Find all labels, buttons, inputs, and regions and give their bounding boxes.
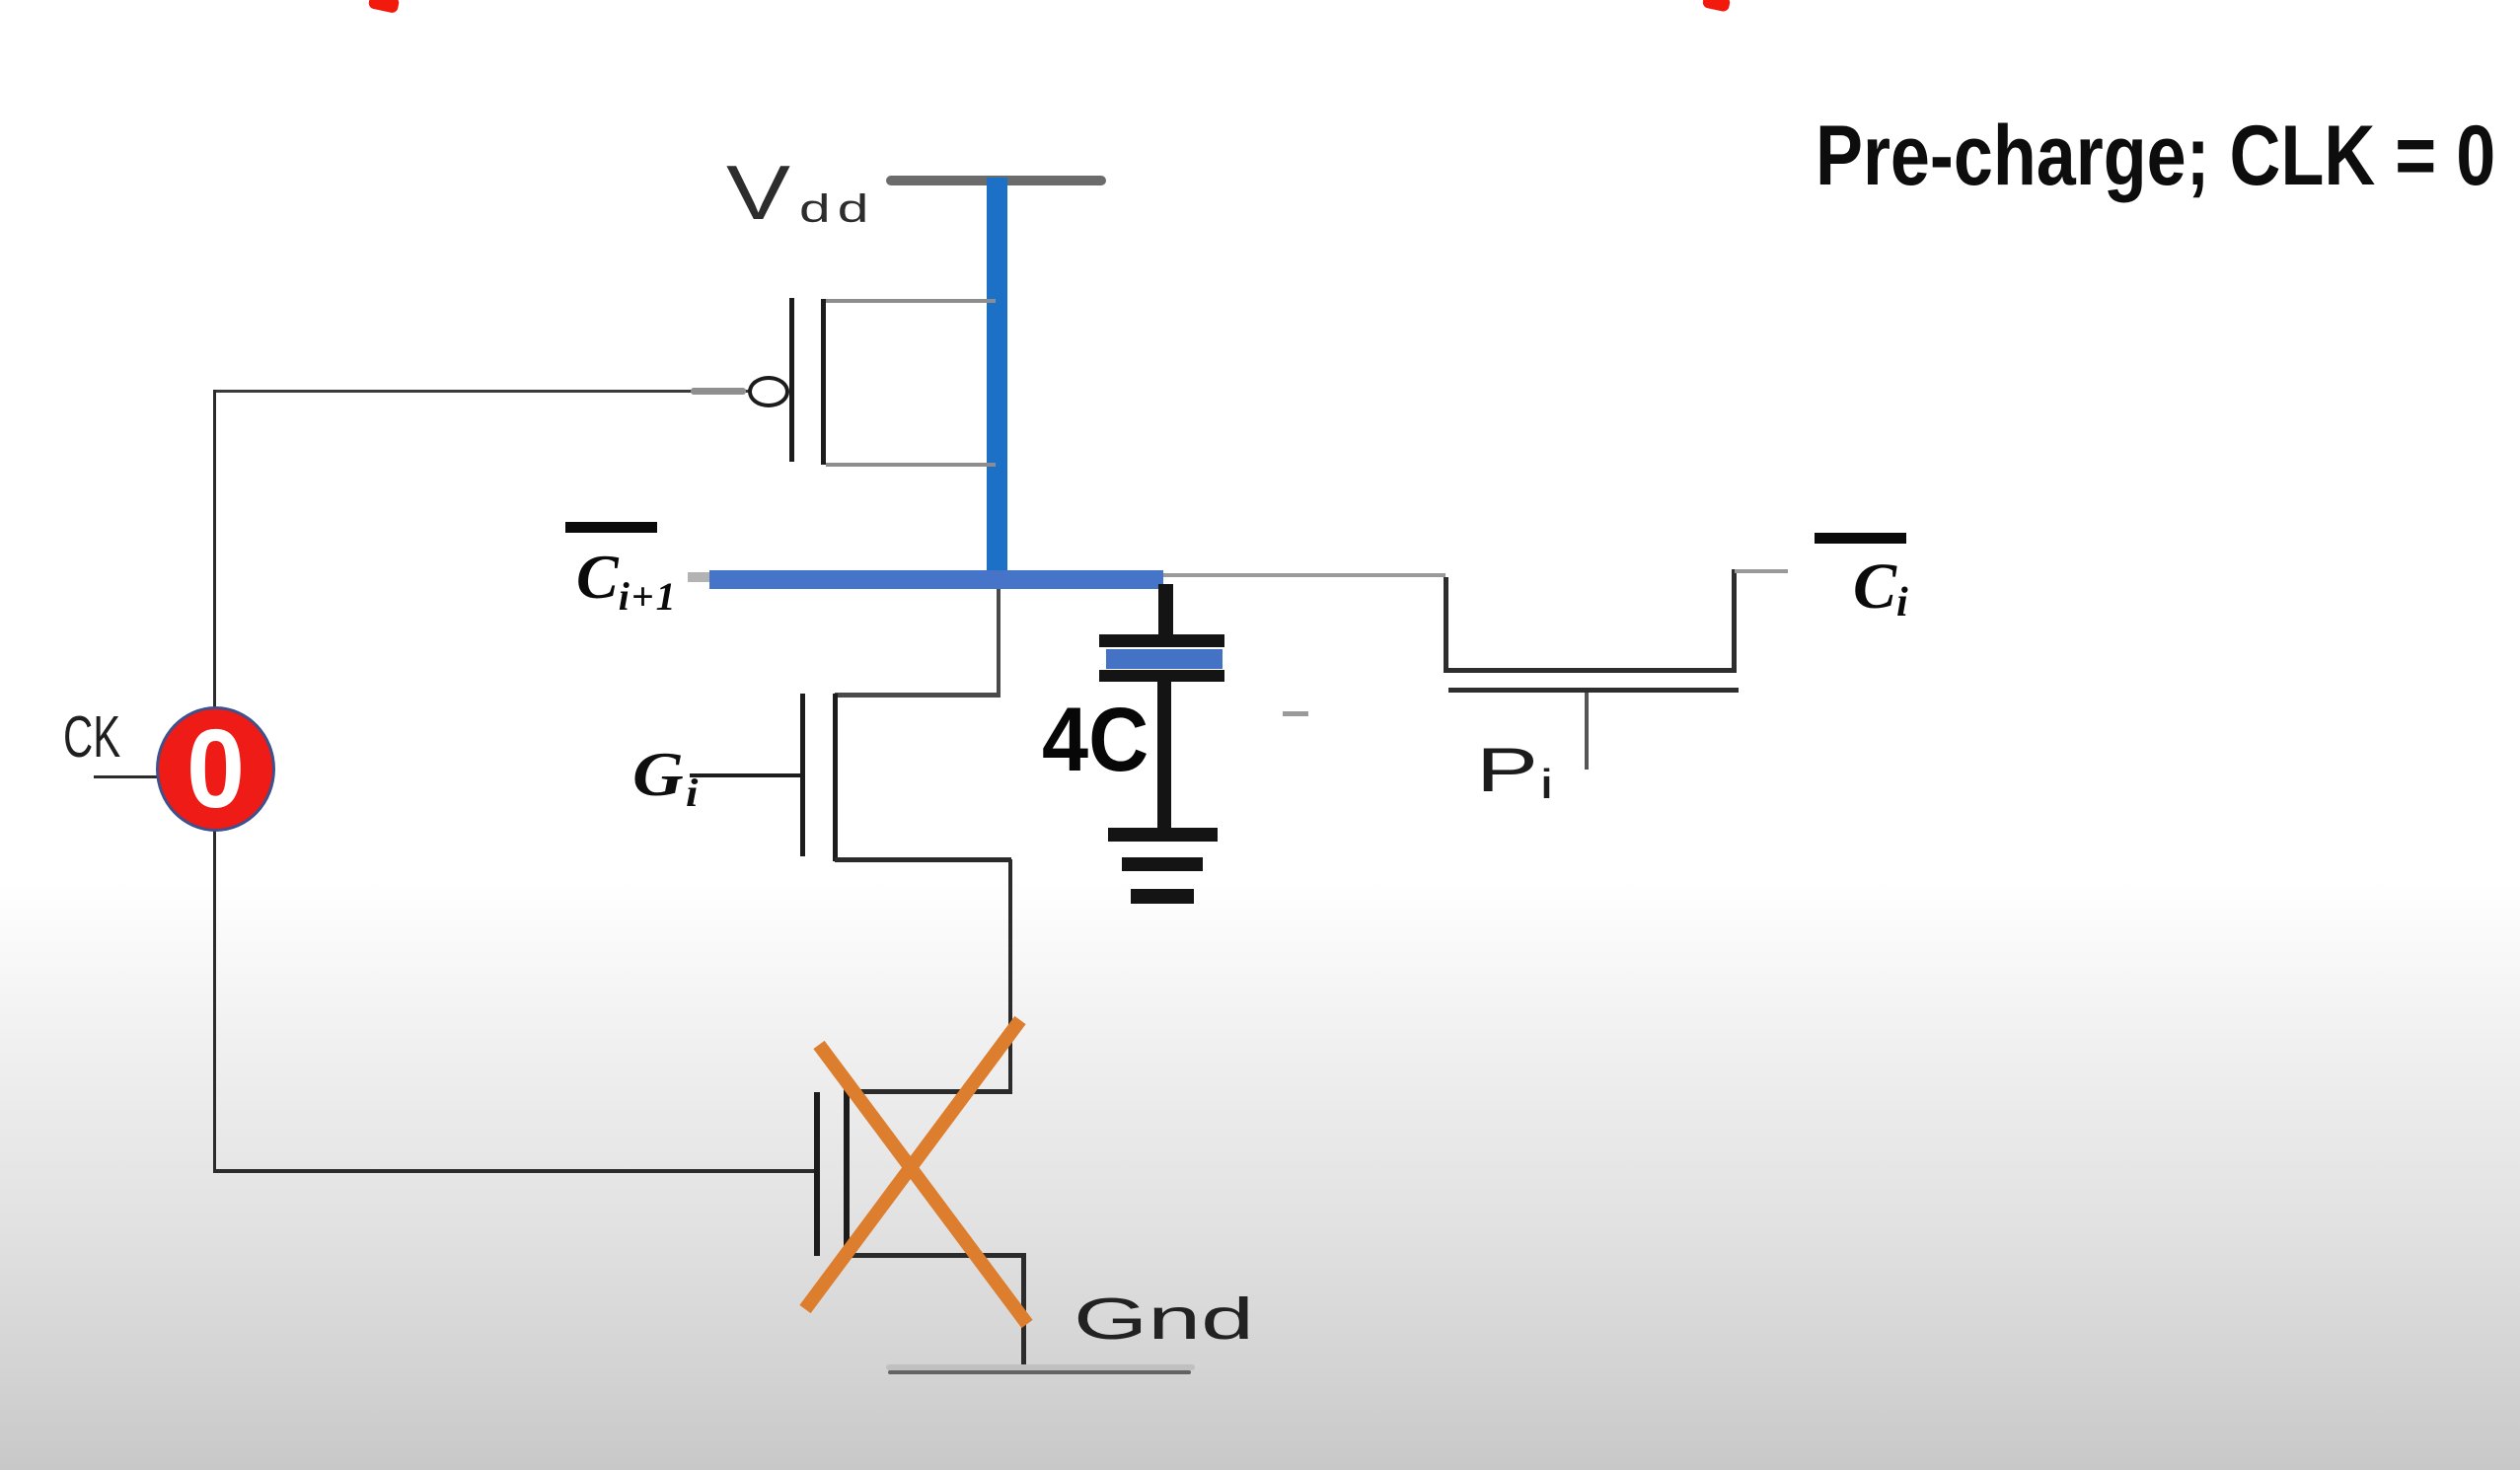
wire: thin gray from node to pass transistor (1163, 573, 1445, 577)
transistor M1 PMOS precharge: gate wire from CK line (213, 390, 749, 393)
wire: CK vertical (upper segment) (213, 390, 216, 707)
wire: CK vertical (lower segment) (213, 831, 216, 1172)
caption "Pre-charge; CLK = 0" (1816, 108, 2495, 205)
node Ci+1 blue charged rail (709, 570, 1163, 589)
label G_i (632, 738, 698, 816)
transistor M1 PMOS drain wire to node (826, 463, 996, 467)
node CK value bubble (red circle) (156, 706, 275, 832)
transistor M2 NMOS G_i: gate wire (690, 773, 801, 777)
label CK (63, 703, 120, 771)
label P_i (1476, 735, 1554, 808)
wire: CK horizontal lead into clock bubble (94, 775, 159, 778)
capacitor 4C: bottom plate (1099, 670, 1224, 682)
capacitor 4C: top plate (1099, 634, 1224, 647)
wire: clock transistor drain horizontal (844, 1089, 1012, 1094)
label Ci (complement carry in) overbar (1815, 533, 1906, 544)
Vdd power rail (886, 176, 1106, 185)
X stroke NE-SW (805, 1020, 1020, 1309)
label Ci text (1853, 550, 1908, 626)
label Ci+1 text (576, 541, 678, 620)
transistor M4 channel (top bar) (1444, 668, 1737, 673)
ground symbol bar 3 (1131, 889, 1194, 904)
transistor M2 NMOS channel bar (833, 694, 838, 861)
capacitor 4C: top lead (1158, 584, 1173, 639)
red title descender mark 2 (1702, 0, 1732, 13)
transistor M3 NMOS clock pulldown: gate wire from CK (213, 1169, 815, 1173)
capacitor 4C: bottom lead (1157, 682, 1171, 834)
transistor M4 NMOS pass (P_i): left drain vertical (1444, 577, 1448, 672)
wire: source down to ground rail (1021, 1255, 1026, 1371)
wire: blue precharge path Vdd to node (987, 178, 1007, 584)
wire: drain horizontal of G_i transistor (835, 693, 1001, 698)
ground rail (Gnd) dark line (888, 1370, 1191, 1374)
ground symbol bar 2 (1122, 857, 1203, 871)
transistor M3 NMOS source wire (847, 1253, 1026, 1258)
transistor M4 gate bar (1448, 688, 1739, 693)
transistor M3 NMOS gate bar (814, 1092, 820, 1256)
transistor M1 PMOS gate bar (789, 298, 794, 462)
transistor M2 NMOS source wire (835, 857, 1011, 862)
transistor M1 PMOS gate bubble (748, 376, 789, 407)
wire: thick gray stub into PMOS gate bubble (691, 388, 746, 395)
wire: gray stub left of node (688, 572, 710, 582)
transistor M1 PMOS source wire to Vdd (826, 299, 996, 303)
transistor M3 NMOS channel bar (844, 1091, 850, 1249)
label Gnd (1074, 1286, 1254, 1353)
ground symbol bar 1 (1108, 828, 1218, 842)
X stroke NW-SE (819, 1045, 1027, 1324)
ground rail (Gnd) light band (886, 1364, 1195, 1370)
label 4C (1042, 689, 1149, 792)
transistor M2 NMOS gate bar (800, 694, 805, 856)
red title descender mark 1 (368, 0, 401, 14)
transistor M4 right source vertical (1732, 569, 1737, 673)
capacitor 4C: blue dielectric charge (1106, 649, 1223, 669)
small gray dash artifact (1283, 711, 1308, 716)
wire: G_i source down to clock transistor drain (1008, 859, 1012, 1093)
transistor M4 gate stub down (1585, 693, 1589, 770)
transistor M1 PMOS channel bar (821, 299, 826, 465)
wire: node down to G_i transistor drain (997, 589, 1001, 696)
label 0 (clock value) (160, 704, 272, 833)
label Vdd (726, 148, 790, 238)
wire: pass transistor to Ci label (1735, 569, 1788, 573)
label Ci+1 (complement carry out) overbar (565, 522, 657, 533)
